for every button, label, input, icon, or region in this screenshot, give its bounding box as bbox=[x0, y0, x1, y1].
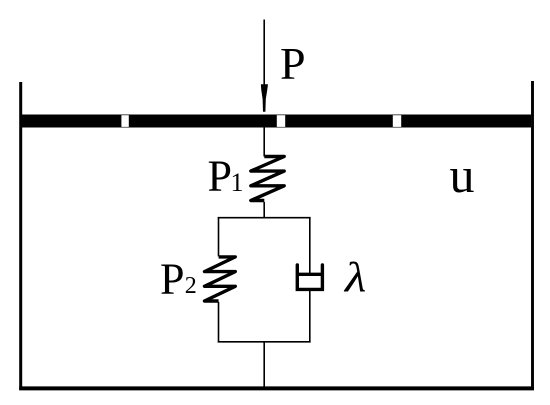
svg-text:P: P bbox=[208, 152, 232, 201]
plate hole 3 bbox=[393, 115, 401, 127]
dashpot cup (walls + bottom) bbox=[297, 265, 322, 290]
dashpot piston bbox=[296, 273, 324, 276]
svg-text:1: 1 bbox=[231, 168, 244, 197]
spring P1 bbox=[251, 157, 284, 201]
right branch wire lower bbox=[309, 291, 311, 343]
svg-text:P: P bbox=[280, 38, 306, 89]
branch bottom rail bbox=[218, 341, 311, 343]
right branch wire upper bbox=[309, 217, 311, 274]
container left wall bbox=[19, 82, 22, 390]
load arrow line bbox=[263, 20, 265, 89]
svg-text:λ: λ bbox=[343, 253, 366, 300]
wire branch to container bottom bbox=[263, 342, 265, 388]
svg-text:2: 2 bbox=[185, 273, 197, 299]
plate hole 1 bbox=[121, 115, 128, 127]
plate hole 2 bbox=[277, 115, 285, 127]
wire plate to spring P1 bbox=[263, 128, 265, 157]
wire spring P1 to branch top bbox=[263, 202, 265, 219]
spring P2 bbox=[205, 257, 236, 301]
load arrowhead bbox=[261, 84, 268, 112]
svg-text:u: u bbox=[450, 147, 475, 203]
left branch wire upper bbox=[218, 217, 220, 256]
branch top rail bbox=[218, 217, 311, 219]
porous piston plate bbox=[22, 115, 531, 128]
svg-text:P: P bbox=[160, 255, 184, 304]
left branch wire lower bbox=[218, 302, 220, 343]
container bottom bbox=[19, 386, 534, 390]
container right wall bbox=[531, 81, 534, 390]
